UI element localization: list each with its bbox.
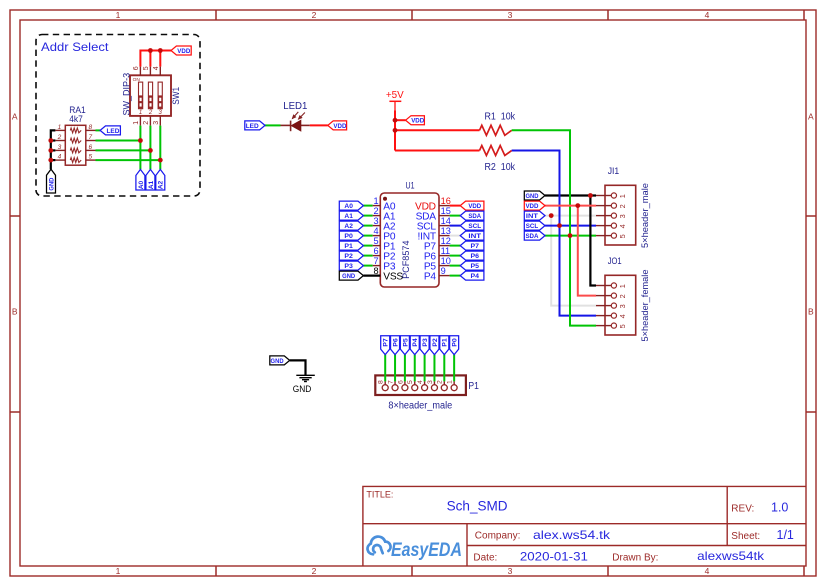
svg-text:8: 8 [89, 124, 93, 131]
svg-text:5: 5 [407, 380, 414, 384]
svg-text:P6: P6 [471, 253, 480, 260]
svg-text:12: 12 [441, 236, 451, 246]
svg-text:5: 5 [618, 234, 627, 238]
svg-text:A: A [808, 112, 814, 122]
svg-text:P2: P2 [344, 253, 353, 260]
svg-text:P1: P1 [344, 243, 353, 250]
svg-text:5: 5 [143, 66, 150, 70]
svg-text:alex.ws54.tk: alex.ws54.tk [533, 528, 611, 542]
svg-text:1: 1 [116, 10, 121, 20]
svg-text:5×header_female: 5×header_female [640, 270, 651, 342]
svg-text:3: 3 [58, 144, 62, 151]
svg-text:3: 3 [618, 304, 627, 308]
svg-text:11: 11 [441, 246, 451, 256]
svg-text:2020-01-31: 2020-01-31 [520, 549, 588, 563]
svg-text:2: 2 [437, 380, 444, 384]
svg-text:Drawn By:: Drawn By: [612, 552, 658, 563]
svg-text:5: 5 [618, 324, 627, 328]
svg-text:JO1: JO1 [608, 256, 622, 267]
svg-text:B: B [12, 307, 18, 317]
svg-text:7: 7 [373, 256, 378, 266]
svg-text:Sheet:: Sheet: [731, 531, 760, 542]
svg-text:4: 4 [618, 314, 627, 318]
svg-text:VDD: VDD [177, 48, 190, 55]
svg-text:SDA: SDA [468, 213, 481, 220]
svg-text:P0: P0 [344, 233, 353, 240]
svg-text:4k7: 4k7 [69, 114, 83, 125]
svg-text:GND: GND [342, 273, 355, 280]
svg-text:TITLE:: TITLE: [366, 489, 393, 499]
svg-text:2: 2 [373, 206, 378, 216]
svg-text:P1: P1 [442, 338, 449, 347]
svg-text:3: 3 [373, 216, 378, 226]
svg-text:GND: GND [293, 384, 312, 395]
svg-text:JI1: JI1 [608, 166, 620, 177]
svg-text:Date:: Date: [473, 552, 497, 563]
svg-text:SW_DIP-3: SW_DIP-3 [122, 73, 132, 116]
svg-text:3: 3 [153, 121, 160, 125]
svg-text:1: 1 [618, 284, 627, 288]
svg-text:INT: INT [526, 213, 538, 220]
svg-text:P2: P2 [432, 338, 439, 347]
svg-text:VDD: VDD [333, 123, 346, 130]
svg-text:1: 1 [447, 380, 454, 384]
svg-text:2: 2 [312, 10, 317, 20]
svg-text:P7: P7 [383, 338, 390, 347]
svg-text:4: 4 [153, 66, 160, 70]
svg-text:P0: P0 [452, 338, 459, 347]
svg-text:P3: P3 [344, 263, 353, 270]
svg-text:8×header_male: 8×header_male [388, 401, 452, 412]
svg-text:1: 1 [373, 196, 378, 206]
svg-text:4: 4 [58, 154, 62, 161]
svg-text:2: 2 [57, 134, 62, 141]
svg-text:B: B [808, 307, 814, 317]
svg-text:SCL: SCL [526, 223, 539, 230]
svg-text:5×header_male: 5×header_male [640, 183, 651, 248]
svg-text:7: 7 [89, 134, 93, 141]
svg-text:A0: A0 [344, 203, 353, 210]
svg-text:PCF8574: PCF8574 [401, 241, 411, 279]
svg-text:P5: P5 [471, 263, 480, 270]
svg-text:2: 2 [143, 121, 150, 125]
svg-text:REV:: REV: [731, 503, 754, 514]
svg-text:3: 3 [508, 10, 513, 20]
svg-text:6: 6 [89, 144, 93, 151]
svg-text:SDA: SDA [525, 233, 538, 240]
svg-text:P3: P3 [422, 338, 429, 347]
svg-text:Sch_SMD: Sch_SMD [447, 497, 508, 513]
svg-text:A2: A2 [344, 223, 353, 230]
svg-text:1: 1 [133, 121, 140, 125]
svg-text:16: 16 [441, 196, 451, 206]
svg-text:8: 8 [373, 266, 378, 276]
svg-text:VDD: VDD [411, 118, 424, 125]
svg-text:1: 1 [58, 124, 62, 131]
svg-text:1: 1 [618, 194, 627, 198]
svg-text:4: 4 [705, 10, 710, 20]
svg-text:4: 4 [417, 380, 424, 384]
svg-text:R1 10k: R1 10k [485, 112, 516, 123]
svg-text:GND: GND [48, 177, 55, 190]
svg-text:15: 15 [441, 206, 451, 216]
svg-text:SCL: SCL [468, 223, 481, 230]
svg-text:R2 10k: R2 10k [485, 162, 516, 173]
svg-text:Addr Select: Addr Select [41, 40, 109, 54]
svg-text:INT: INT [468, 233, 481, 240]
svg-text:2: 2 [312, 566, 317, 576]
svg-text:P4: P4 [424, 272, 437, 283]
svg-text:GND: GND [271, 358, 284, 365]
svg-text:3: 3 [508, 566, 513, 576]
svg-text:P7: P7 [471, 243, 480, 250]
svg-text:U1: U1 [406, 180, 415, 191]
svg-text:1: 1 [139, 110, 142, 116]
svg-text:P4: P4 [412, 338, 419, 347]
svg-text:2: 2 [618, 204, 627, 208]
svg-text:A2: A2 [158, 180, 165, 189]
svg-text:4: 4 [705, 566, 710, 576]
svg-text:6: 6 [373, 246, 378, 256]
svg-text:2: 2 [148, 110, 153, 116]
svg-text:4: 4 [618, 224, 627, 228]
svg-text:P4: P4 [471, 273, 480, 280]
svg-text:VDD: VDD [525, 203, 538, 210]
svg-text:A1: A1 [344, 213, 353, 220]
svg-text:P1: P1 [468, 381, 479, 392]
svg-text:+5V: +5V [386, 90, 404, 101]
svg-text:SW1: SW1 [171, 87, 181, 105]
svg-text:alexws54tk: alexws54tk [697, 549, 765, 563]
svg-text:1.0: 1.0 [771, 500, 788, 514]
svg-text:VDD: VDD [468, 203, 481, 210]
svg-text:9: 9 [441, 266, 446, 276]
svg-text:8: 8 [378, 380, 385, 384]
svg-text:1/1: 1/1 [777, 528, 794, 542]
svg-text:3: 3 [427, 380, 434, 384]
svg-text:3: 3 [618, 214, 627, 218]
svg-text:1: 1 [116, 566, 121, 576]
svg-text:4: 4 [373, 226, 378, 236]
svg-text:LED1: LED1 [283, 101, 308, 112]
svg-text:A: A [12, 112, 18, 122]
svg-text:A1: A1 [148, 180, 155, 189]
svg-text:Company:: Company: [475, 530, 521, 541]
svg-text:LED: LED [106, 128, 119, 135]
svg-text:6: 6 [397, 380, 404, 384]
svg-text:LED: LED [246, 123, 259, 130]
svg-text:13: 13 [441, 226, 451, 236]
svg-text:2: 2 [618, 294, 627, 298]
svg-text:P5: P5 [402, 338, 409, 347]
svg-text:5: 5 [373, 236, 378, 246]
svg-text:A0: A0 [138, 180, 145, 189]
svg-text:7: 7 [387, 380, 394, 384]
svg-text:GND: GND [525, 193, 538, 200]
svg-text:10: 10 [441, 256, 451, 266]
svg-text:6: 6 [133, 66, 140, 70]
svg-text:EasyEDA: EasyEDA [391, 539, 462, 561]
svg-text:14: 14 [441, 216, 451, 226]
svg-text:5: 5 [89, 154, 93, 161]
svg-text:P6: P6 [392, 338, 399, 347]
